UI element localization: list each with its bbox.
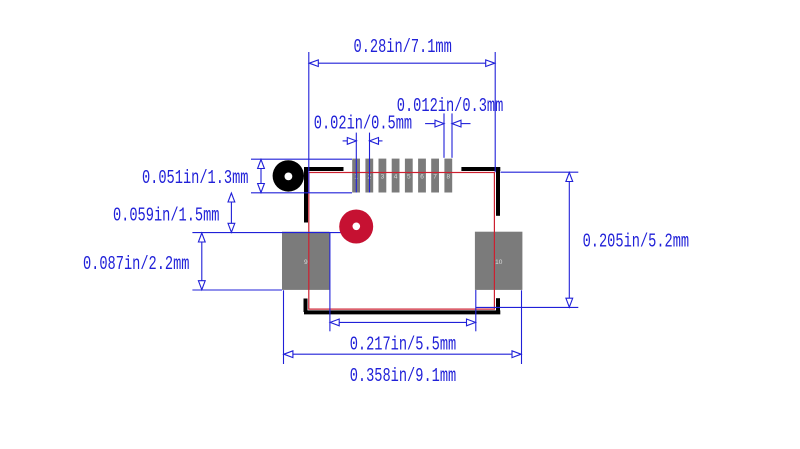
- dimension 0.051in/1.3mm line: [260, 169, 262, 184]
- dimension 0.358in/9.1mm right arrowhead: [512, 351, 521, 358]
- svg-text:9: 9: [304, 259, 308, 266]
- dimension 0.02in/0.5mm extension line pad1 center: [355, 133, 357, 193]
- courtyard outline (red rectangle): [309, 173, 495, 310]
- dimension 0.02in/0.5mm right line: [379, 140, 383, 142]
- svg-text:5: 5: [407, 174, 411, 181]
- svg-text:0.358in/9.1mm: 0.358in/9.1mm: [350, 366, 457, 388]
- dimension 0.02in/0.5mm right arrowhead: [370, 138, 379, 145]
- dimension 0.087in/2.2mm line: [201, 242, 203, 281]
- silkscreen top-right horizontal segment: [461, 167, 500, 171]
- svg-text:10: 10: [495, 259, 503, 266]
- dimension 0.012in/0.3mm extension line pad8 left: [443, 113, 445, 157]
- dimension 0.012in/0.3mm left arrowhead: [435, 120, 444, 127]
- svg-text:3: 3: [381, 174, 385, 181]
- svg-text:8: 8: [446, 174, 450, 181]
- silkscreen bottom-right vertical segment: [496, 298, 500, 312]
- dimension 0.28in/7.1mm right extension line: [494, 52, 496, 172]
- dimension 0.02in/0.5mm left arrowhead: [347, 138, 356, 145]
- pin 1 marker (black donut): [273, 160, 304, 191]
- silkscreen top-left horizontal segment: [304, 167, 343, 171]
- dimension 0.217in/5.5mm left extension line: [329, 232, 331, 331]
- svg-text:7: 7: [433, 174, 437, 181]
- svg-text:4: 4: [394, 174, 398, 181]
- silkscreen bottom horizontal segment: [304, 310, 500, 314]
- pad 3: [379, 159, 387, 193]
- dimension 0.217in/5.5mm right arrowhead: [467, 319, 476, 326]
- svg-text:0.217in/5.5mm: 0.217in/5.5mm: [350, 334, 457, 356]
- dimension 0.28in/7.1mm right arrowhead: [486, 60, 495, 67]
- dimension 0.059in/1.5mm line: [230, 202, 232, 223]
- pad 5: [405, 159, 413, 193]
- dimension 0.205in/5.2mm bottom arrowhead: [566, 298, 573, 307]
- silkscreen left vertical segment: [304, 167, 308, 223]
- dimension 0.087in/2.2mm top arrowhead: [198, 233, 205, 242]
- dimension 0.02in/0.5mm extension line pad2 center: [369, 133, 371, 193]
- dimension 0.28in/7.1mm line: [318, 62, 485, 64]
- dimension 0.358in/9.1mm left arrowhead: [284, 351, 293, 358]
- dimension 0.051in/1.3mm top extension line: [251, 158, 352, 160]
- pad 6: [418, 159, 426, 193]
- dimension 0.059in/1.5mm top arrowhead: [228, 193, 235, 202]
- dimension 0.087in/2.2mm bottom extension line: [192, 289, 282, 291]
- dimension 0.205in/5.2mm line: [568, 182, 570, 299]
- silkscreen bottom-left vertical segment: [304, 299, 308, 313]
- svg-text:0.051in/1.3mm: 0.051in/1.3mm: [142, 168, 249, 190]
- silkscreen right vertical segment: [496, 167, 500, 216]
- dimension 0.087in/2.2mm bottom arrowhead: [198, 281, 205, 290]
- dimension 0.012in/0.3mm right arrowhead: [452, 120, 461, 127]
- dimension 0.059in/1.5mm bottom extension line: [192, 232, 352, 234]
- pad 9: [282, 232, 330, 290]
- dimension 0.28in/7.1mm left arrowhead: [309, 60, 318, 67]
- dimension 0.012in/0.3mm right line: [461, 123, 471, 125]
- dimension 0.051in/1.3mm bottom arrowhead: [258, 184, 265, 193]
- pad 1: [352, 159, 360, 193]
- dimension 0.059in/1.5mm bottom arrowhead: [228, 223, 235, 232]
- dimension 0.205in/5.2mm top extension line: [501, 171, 579, 173]
- dimension 0.205in/5.2mm bottom extension line: [476, 306, 578, 308]
- svg-text:6: 6: [420, 174, 424, 181]
- dimension 0.051in/1.3mm bottom extension line: [251, 192, 352, 194]
- dimension 0.28in/7.1mm left extension line: [308, 52, 310, 193]
- origin marker (red donut): [339, 210, 373, 244]
- svg-text:0.205in/5.2mm: 0.205in/5.2mm: [583, 231, 690, 253]
- dimension 0.012in/0.3mm left line: [425, 123, 435, 125]
- dimension 0.051in/1.3mm top arrowhead: [258, 160, 265, 169]
- svg-text:0.087in/2.2mm: 0.087in/2.2mm: [83, 254, 190, 276]
- svg-text:0.28in/7.1mm: 0.28in/7.1mm: [354, 37, 452, 59]
- dimension 0.358in/9.1mm line: [293, 353, 512, 355]
- pad 7: [431, 159, 439, 193]
- pad 8: [444, 159, 452, 193]
- dimension 0.217in/5.5mm left arrowhead: [330, 319, 339, 326]
- pad 10: [475, 232, 523, 290]
- svg-text:0.059in/1.5mm: 0.059in/1.5mm: [113, 205, 220, 227]
- dimension 0.205in/5.2mm top arrowhead: [566, 173, 573, 182]
- dimension 0.012in/0.3mm extension line pad8 right: [451, 113, 453, 157]
- dimension 0.217in/5.5mm right extension line: [475, 290, 477, 331]
- pad 4: [392, 159, 400, 193]
- dimension 0.358in/9.1mm right extension line: [521, 290, 523, 364]
- dimension 0.217in/5.5mm line: [339, 321, 466, 323]
- pad 2: [365, 159, 373, 193]
- svg-text:0.012in/0.3mm: 0.012in/0.3mm: [397, 96, 504, 118]
- dimension 0.358in/9.1mm left extension line: [283, 290, 285, 364]
- dimension 0.02in/0.5mm left line: [343, 140, 348, 142]
